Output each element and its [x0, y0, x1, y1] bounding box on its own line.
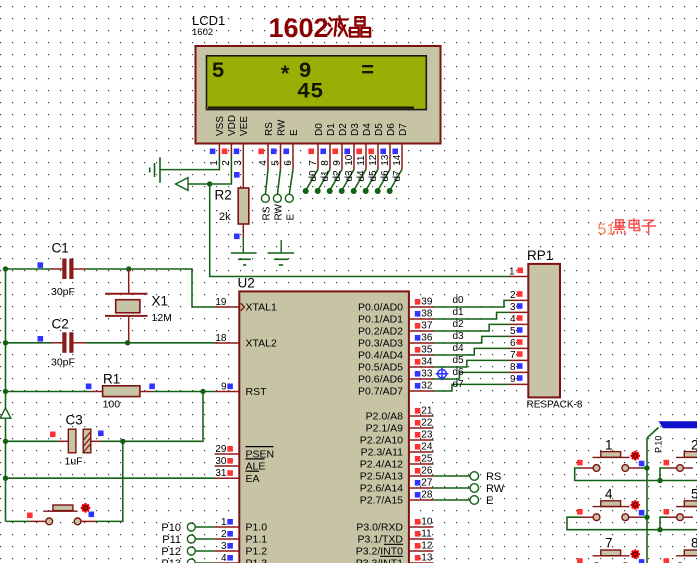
LCD pin name VDD [227, 115, 238, 136]
LCD pin 9 number [332, 160, 343, 166]
U2 pin 31 state marker [227, 470, 233, 476]
junction button 2/row wire [657, 478, 662, 483]
svg-text:D4: D4 [362, 123, 373, 136]
U2 pin 28 state marker [415, 492, 421, 498]
bus label P.10 [654, 436, 664, 453]
marker left of button 2 [664, 460, 670, 466]
title text 1602 (red) [269, 13, 329, 43]
marker on C2 wire [38, 336, 44, 342]
junction rail/C1 [3, 266, 8, 271]
U2 pin 34 (P0.5/AD5) stub [409, 366, 434, 368]
wire button 1 to column [641, 467, 647, 469]
LCD screen text line1: 5 * 9 = [212, 59, 375, 89]
U2 pin 35 (P0.4/AD4) stub [409, 354, 434, 356]
LCD pin name E [289, 129, 300, 136]
button 2 label [691, 438, 697, 453]
svg-text:d1: d1 [320, 170, 331, 182]
net label RW [273, 203, 284, 220]
U2 pin 36 (P0.3/AD3) stub [409, 342, 434, 344]
wire net d7 U2 to RP1 [434, 384, 510, 391]
RP1 pin 5 state marker [517, 327, 523, 333]
U2 pin 1 number [221, 517, 227, 528]
svg-text:12: 12 [368, 154, 379, 166]
LCD pin 7 state marker [308, 149, 314, 155]
U2 pin 39 state marker [415, 299, 421, 305]
wire C2 to X1 bottom node [86, 342, 128, 344]
node d7 (LCD side) [387, 188, 393, 194]
marker left of R1 [86, 384, 92, 390]
U2 pin 25 (P2.4/A12) stub [409, 463, 434, 465]
svg-text:D7: D7 [398, 123, 409, 136]
svg-text:1uF: 1uF [65, 456, 83, 468]
svg-text:28: 28 [421, 490, 433, 501]
LCD pin name D4 [362, 123, 373, 136]
wire U2 to terminal E [434, 499, 471, 501]
U2 pin 23 number [421, 430, 433, 441]
U2 pin 33 (P0.6/AD6) stub [409, 378, 434, 380]
U2 pin 38 number [421, 309, 433, 320]
U2 pin name P2.7/A15 [360, 495, 403, 507]
U2 pin name P0.3/AD3 [358, 338, 403, 350]
push button 2 (partial) [667, 452, 697, 472]
U2 pin name P2.4/A12 [360, 459, 403, 471]
button 5 label [691, 487, 697, 502]
svg-text:32: 32 [421, 381, 433, 392]
svg-text:25: 25 [421, 454, 433, 465]
RP1 pin 6 stub [510, 347, 529, 349]
marker left of button 1 [577, 460, 583, 466]
svg-text:1602: 1602 [269, 13, 329, 43]
svg-text:XTAL1: XTAL1 [246, 302, 277, 314]
wire row 1 left elbow [575, 468, 697, 481]
watermark text 51 [598, 221, 616, 238]
svg-text:E: E [285, 214, 296, 221]
svg-text:36: 36 [421, 333, 433, 344]
wire LCD pin 11 to net d4 [354, 169, 366, 190]
RP1 pin 2 number [510, 290, 516, 301]
actuator symbol on reset button [81, 503, 91, 513]
wire LCD pin 4 to terminal RS [265, 169, 268, 194]
svg-text:10: 10 [421, 517, 433, 528]
svg-text:27: 27 [421, 478, 433, 489]
U2 pin name ALE [246, 459, 266, 473]
RP1 pin 2 stub [510, 299, 529, 301]
wire rail to R1 [6, 391, 92, 393]
junction button 5/row wire [657, 527, 662, 532]
svg-text:P0.3/AD3: P0.3/AD3 [358, 338, 403, 350]
RP1 pin 9 state marker [517, 375, 523, 381]
svg-text:6: 6 [510, 338, 516, 349]
terminal circle P10 [187, 523, 195, 531]
svg-text:d3: d3 [453, 331, 465, 342]
U2 pin name P3.3/INT1 [356, 558, 403, 563]
junction rail/C3 [3, 439, 8, 444]
terminal circle P12 [187, 547, 195, 555]
RP1 pin 4 stub [510, 323, 529, 325]
wire LCD pin 13 to net d6 [378, 169, 390, 190]
U2 pin 4 number [221, 553, 227, 563]
LCD pin 10 stub [353, 144, 355, 169]
marker left of button 4 [577, 509, 583, 515]
net label d4 (U2 side) [453, 343, 465, 354]
svg-text:8: 8 [320, 160, 331, 166]
net label d7 (LCD side) [392, 170, 403, 182]
svg-text:P1.3: P1.3 [246, 558, 268, 563]
LCD pin 5 number [270, 160, 281, 166]
U2 pin 13 number [421, 553, 433, 563]
svg-text:RST: RST [246, 386, 268, 398]
U2 pin 13 state marker [415, 555, 421, 561]
U2 pin 27 number [421, 478, 433, 489]
svg-text:P2.3/A11: P2.3/A11 [361, 447, 404, 459]
LCD1 screen area [207, 56, 427, 110]
svg-text:d4: d4 [356, 170, 367, 182]
U2 pin 2 (P1.1) stub [215, 538, 240, 540]
U2 pin 12 (P3.2/INT0) stub [409, 550, 434, 552]
U2 pin 3 number [221, 541, 227, 552]
U2 pin name P0.6/AD6 [358, 374, 403, 386]
U2 pin name P0.7/AD7 [358, 386, 403, 398]
wire row 4 left elbow [567, 517, 697, 530]
marker left of reset button [27, 513, 33, 519]
svg-text:13: 13 [421, 553, 433, 563]
C1 ref label [52, 241, 69, 256]
wire keypad column to bus [647, 428, 659, 439]
svg-text:P1.0: P1.0 [246, 522, 268, 534]
svg-text:P0.7/AD7: P0.7/AD7 [358, 386, 403, 398]
marker right of button 4 [639, 510, 645, 516]
svg-text:EA: EA [246, 473, 260, 485]
svg-text:1: 1 [509, 267, 515, 278]
svg-text:2: 2 [221, 160, 232, 166]
RP1 pin 4 number [510, 314, 516, 325]
U2 pin 30 (ALE) stub [215, 465, 240, 467]
push button 7 [581, 550, 641, 563]
svg-text:7: 7 [605, 536, 613, 551]
U2 pin name P2.2/A10 [360, 435, 403, 447]
wire LCD pin 9 to net d2 [330, 169, 342, 190]
LCD pin 3 number [233, 160, 244, 166]
svg-text:d2: d2 [332, 170, 343, 182]
net label d5 (U2 side) [453, 355, 465, 366]
LCD pin 12 number [368, 154, 379, 166]
svg-text:P.10: P.10 [654, 436, 664, 453]
svg-text:8: 8 [691, 536, 697, 551]
U2 pin name P2.6/A14 [360, 483, 403, 495]
marker left of C3 [50, 432, 56, 438]
RP1 pin 8 state marker [517, 363, 523, 369]
wire rail to C2 [6, 342, 52, 344]
power symbol (up triangle on rail) [0, 408, 11, 418]
LCD1 value label 1602 [192, 27, 213, 38]
U2 pin name XTAL1 [246, 302, 277, 314]
RP1 value RESPACK-8 [527, 400, 583, 411]
C2 value 30pF [51, 357, 75, 369]
svg-text:D0: D0 [314, 123, 325, 136]
U2 pin name P0.2/AD2 [358, 326, 403, 338]
U2 pin name XTAL2 [246, 338, 277, 350]
svg-text:d0: d0 [308, 170, 319, 182]
R1 ref label [103, 372, 120, 387]
svg-text:RW: RW [486, 483, 505, 495]
svg-text:VSS: VSS [215, 116, 226, 136]
wire button 5 to row wire [660, 517, 667, 530]
left rail wire [5, 269, 7, 521]
svg-text:3: 3 [510, 302, 516, 313]
svg-text:P2.2/A10: P2.2/A10 [360, 435, 403, 447]
LCD screen cursor underline row [208, 106, 414, 108]
marker right of C3 [98, 431, 104, 437]
capacitor C1 [51, 259, 86, 280]
wire net d0 U2 to RP1 [434, 300, 510, 307]
svg-text:RS: RS [264, 122, 275, 136]
LCD pin 14 number [392, 154, 403, 166]
svg-text:d6: d6 [453, 367, 465, 378]
net label d6 (LCD side) [380, 170, 391, 182]
LCD pin 9 stub [341, 144, 343, 169]
U2 pin name P2.1/A9 [366, 423, 404, 435]
net label d4 (LCD side) [356, 170, 367, 182]
RP1 pin 9 stub [510, 383, 529, 385]
svg-text:2k: 2k [219, 211, 231, 223]
net label RS [261, 206, 272, 220]
svg-text:1: 1 [221, 517, 227, 528]
svg-text:19: 19 [215, 297, 227, 308]
svg-text:E: E [486, 495, 493, 507]
svg-text:10: 10 [344, 154, 355, 166]
svg-text:29: 29 [215, 444, 227, 455]
watermark glyph dian (electric) [629, 219, 640, 231]
svg-text:24: 24 [421, 442, 433, 453]
LCD pin 7 stub [317, 144, 319, 169]
svg-text:P2.4/A12: P2.4/A12 [360, 459, 403, 471]
U2 pin 37 (P0.2/AD2) stub [409, 330, 434, 332]
LCD pin 14 state marker [392, 149, 398, 155]
LCD pin 13 stub [389, 144, 391, 169]
X1 value 12M [152, 312, 172, 324]
wire LCD pin 10 to net d3 [342, 169, 354, 190]
svg-text:4: 4 [258, 160, 269, 166]
net label d5 (LCD side) [368, 170, 379, 182]
U2 pin 1 (P1.0) stub [215, 526, 240, 528]
wire X1 node to U2 XTAL2 [128, 342, 215, 344]
LCD pin 2 state marker [222, 149, 228, 155]
U2 pin 30 number [215, 456, 227, 467]
node d3 (LCD side) [339, 188, 345, 194]
LCD pin 7 number [308, 160, 319, 166]
terminal circle RW (U2 side) [470, 484, 479, 493]
wire RST node down to C3 wire [123, 392, 203, 442]
LCD pin 10 state marker [344, 149, 350, 155]
svg-text:2: 2 [691, 438, 697, 453]
LCD pin 6 stub [292, 144, 294, 169]
wire C3 node down to reset button [96, 441, 123, 521]
RP1 pin 9 number [510, 374, 516, 385]
U2 pin 27 state marker [415, 480, 421, 486]
U2 pin 3 (P1.2) stub [215, 550, 240, 552]
RP1 pin 7 state marker [517, 351, 523, 357]
net label RS (U2 side) [486, 471, 501, 483]
LCD pin 1 state marker [210, 149, 216, 155]
U2 pin 37 number [421, 321, 433, 332]
svg-text:1: 1 [605, 438, 613, 453]
U2 pin 11 state marker [415, 531, 421, 537]
svg-text:9: 9 [221, 382, 227, 393]
svg-text:R2: R2 [215, 188, 232, 203]
svg-text:30pF: 30pF [51, 286, 75, 298]
LCD pin 11 state marker [356, 149, 362, 155]
U2 pin 30 state marker [227, 458, 233, 464]
node d0 (LCD side) [303, 188, 309, 194]
net label d3 (LCD side) [344, 170, 355, 182]
capacitor C3 (electrolytic) [58, 429, 101, 453]
marker left of button 8 [664, 558, 670, 563]
U2 ref label [238, 276, 255, 291]
svg-text:7: 7 [510, 350, 516, 361]
svg-text:D5: D5 [374, 123, 385, 136]
ground (LCD VSS) [150, 157, 160, 182]
U2 pin 39 number [421, 297, 433, 308]
RP1 pin 1 number [509, 267, 515, 278]
LCD pin 14 stub [401, 144, 403, 169]
LCD pin 1 number [209, 160, 220, 166]
U2 pin name P0.4/AD4 [358, 350, 403, 362]
svg-text:22: 22 [421, 418, 433, 429]
U2 pin name P0.1/AD1 [358, 314, 403, 326]
svg-text:9: 9 [510, 374, 516, 385]
U2 pin 36 number [421, 333, 433, 344]
capacitor C2 [51, 332, 86, 353]
U2 pin 25 state marker [415, 456, 421, 462]
wire button 2 to row wire [660, 468, 667, 481]
U2 pin name P2.3/A11 [361, 447, 404, 459]
LCD pin name RS [264, 122, 275, 136]
svg-text:21: 21 [421, 406, 433, 417]
origin crosshair marker [436, 368, 449, 381]
marker left of button 7 [577, 558, 583, 563]
U2 pin 26 (P2.5/A13) stub [409, 475, 434, 477]
wire rail to C1 [6, 268, 52, 270]
svg-text:RS: RS [261, 206, 272, 220]
terminal circle P13 [187, 559, 195, 563]
LCD pin name D1 [326, 123, 337, 136]
crystal X1 [105, 269, 148, 343]
C2 ref label [52, 317, 69, 332]
junction VDD node [207, 181, 212, 186]
net label d1 (LCD side) [320, 170, 331, 182]
wire LCD pin3 (VEE) to R2 [242, 169, 244, 188]
svg-text:P13: P13 [161, 558, 181, 563]
terminal circle P11 [187, 535, 195, 543]
terminal label P10 [161, 522, 181, 534]
net label RW (U2 side) [486, 483, 505, 495]
svg-text:P2.1/A9: P2.1/A9 [366, 423, 404, 435]
U2 pin 38 (P0.1/AD1) stub [409, 318, 434, 320]
svg-text:R1: R1 [103, 372, 120, 387]
U2 pin 24 (P2.3/A11) stub [409, 451, 434, 453]
resistor R2 [238, 188, 249, 224]
junction rail/EA wire [3, 476, 8, 481]
junction X1 top [126, 266, 131, 271]
LCD screen text line2: 45 [297, 79, 323, 104]
wire P13 to U2 [195, 562, 214, 563]
marker right of button 7 [639, 559, 645, 563]
svg-text:5: 5 [691, 487, 697, 502]
U2 pin 1 state marker [227, 519, 233, 525]
wire rail to C3 [6, 440, 59, 442]
wire net d5 U2 to RP1 [434, 360, 510, 367]
U2 pin 10 number [421, 517, 433, 528]
U2 pin 35 number [421, 345, 433, 356]
push button 8 (partial) [667, 550, 697, 563]
svg-text:C2: C2 [52, 317, 69, 332]
wire net d2 U2 to RP1 [434, 324, 510, 331]
U2 pin 19 (XTAL1) stub [215, 306, 240, 308]
wire LCD pin1 to ground [160, 157, 219, 170]
U2 pin 26 number [421, 466, 433, 477]
U2 pin 2 state marker [227, 531, 233, 537]
RP1 ref label [527, 248, 553, 263]
wire net d1 U2 to RP1 [434, 312, 510, 319]
U2 pin 21 number [421, 406, 433, 417]
LCD pin 11 number [356, 155, 367, 166]
svg-text:4: 4 [605, 487, 613, 502]
svg-text:23: 23 [421, 430, 433, 441]
RP1 pin 1 stub [510, 276, 529, 278]
U2 pin 11 (P3.1/TXD) stub [409, 538, 434, 540]
svg-text:RESPACK-8: RESPACK-8 [527, 400, 583, 411]
U2 pin name P0.5/AD5 [358, 362, 403, 374]
button 7 label [605, 536, 613, 551]
watermark glyph hei (black) [613, 220, 625, 234]
R2 value 2k [219, 211, 231, 223]
wire LCD pin 7 to net d0 [306, 169, 318, 190]
LCD pin name RW [276, 119, 287, 136]
svg-text:d7: d7 [453, 379, 465, 390]
svg-text:d1: d1 [453, 307, 465, 318]
wire C1 to X1 node [86, 268, 129, 270]
junction rail/C2 [3, 340, 8, 345]
X1 ref label [152, 294, 169, 309]
svg-text:26: 26 [421, 466, 433, 477]
RP1 pin 8 stub [510, 371, 529, 373]
svg-text:14: 14 [392, 154, 403, 166]
net label d0 (U2 side) [453, 295, 465, 306]
svg-text:12M: 12M [152, 312, 172, 324]
U2 pin 38 state marker [415, 311, 421, 317]
net label d1 (U2 side) [453, 307, 465, 318]
LCD pin name D6 [386, 123, 397, 136]
svg-text:d7: d7 [392, 170, 403, 182]
svg-text:XTAL2: XTAL2 [246, 338, 277, 350]
svg-text:5: 5 [212, 59, 225, 84]
marker left of button 5 [664, 509, 670, 515]
RP1 pin 5 stub [510, 335, 529, 337]
svg-text:RW: RW [276, 119, 287, 136]
RP1 pin 3 state marker [517, 303, 523, 309]
LCD1 reference label [192, 13, 225, 28]
LCD pin 4 stub [267, 144, 269, 169]
bus wire (blue) [659, 421, 697, 428]
button 7 actuator [630, 549, 640, 559]
marker right of R1 [149, 384, 155, 390]
svg-text:RW: RW [273, 203, 284, 220]
svg-text:RS: RS [486, 471, 501, 483]
U2 pin name P0.0/AD0 [358, 302, 403, 314]
ground (below R2) [231, 253, 257, 265]
ground (floating, below E) [268, 240, 295, 265]
LCD pin 11 stub [365, 144, 367, 169]
